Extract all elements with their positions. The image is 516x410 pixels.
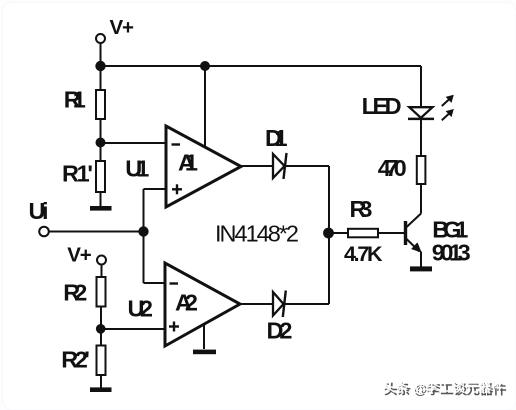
- svg-text:R2': R2': [61, 347, 90, 373]
- svg-text:4.7K: 4.7K: [344, 242, 383, 266]
- svg-text:LED: LED: [362, 93, 402, 119]
- svg-text:R3: R3: [350, 196, 373, 222]
- svg-text:Ui: Ui: [29, 198, 49, 224]
- svg-text:470: 470: [378, 155, 407, 181]
- svg-text:IN4148*2: IN4148*2: [215, 220, 299, 246]
- svg-text:U2: U2: [128, 296, 154, 322]
- svg-text:A2: A2: [175, 290, 198, 316]
- svg-text:头条 @李工谈元器件: 头条 @李工谈元器件: [382, 379, 504, 395]
- svg-text:R2: R2: [63, 280, 87, 306]
- svg-text:9013: 9013: [432, 239, 471, 265]
- svg-text:R1': R1': [62, 160, 93, 186]
- svg-text:R1: R1: [64, 87, 86, 113]
- svg-text:A1: A1: [178, 149, 198, 175]
- svg-text:D1: D1: [265, 125, 288, 151]
- svg-text:V+: V+: [110, 16, 135, 39]
- svg-text:V+: V+: [67, 244, 92, 267]
- svg-text:U1: U1: [125, 155, 149, 181]
- svg-text:D2: D2: [267, 318, 293, 344]
